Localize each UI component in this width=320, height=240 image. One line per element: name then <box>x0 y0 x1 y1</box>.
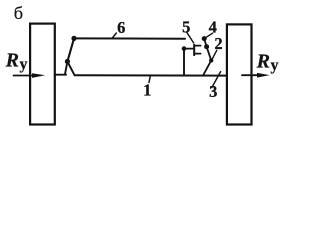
right force arrow head <box>257 73 270 78</box>
label 3 leader <box>212 72 221 88</box>
svg-text:б: б <box>14 3 23 23</box>
left force arrow Ry shaft <box>14 75 35 77</box>
bracket from left plate <box>55 74 66 76</box>
fulcrum left leg <box>65 62 68 75</box>
svg-text:R: R <box>5 50 19 72</box>
svg-text:6: 6 <box>117 18 125 37</box>
svg-text:1: 1 <box>143 80 151 99</box>
contact arm upper <box>207 47 212 61</box>
svg-text:R: R <box>256 51 270 73</box>
svg-text:у: у <box>20 56 28 73</box>
right force arrow shaft <box>242 74 259 76</box>
svg-text:у: у <box>271 57 279 74</box>
contact dot 2 <box>204 44 209 49</box>
label 5 leader <box>187 32 194 43</box>
upper bar 6 <box>75 37 185 39</box>
right support plate <box>227 24 252 124</box>
fulcrum right leg <box>67 62 74 76</box>
label 2 leader <box>211 50 216 60</box>
contact arm lower <box>203 60 211 75</box>
label 6 leader <box>112 33 116 38</box>
fork top prong <box>195 45 201 47</box>
label 4 leader <box>205 33 213 38</box>
svg-text:2: 2 <box>214 34 222 53</box>
svg-text:3: 3 <box>209 82 217 101</box>
contact pair segment <box>204 39 206 47</box>
fork bar 5 <box>193 45 195 55</box>
lever upper pivot dot <box>71 36 76 41</box>
left force arrow head <box>32 73 45 78</box>
contact dot 4 <box>202 36 207 41</box>
left support plate <box>30 24 55 125</box>
contact arm elbow <box>209 58 213 62</box>
svg-text:5: 5 <box>182 17 190 36</box>
lever lower pivot dot <box>65 59 70 64</box>
link to fork <box>184 48 194 50</box>
lever link <box>67 38 74 61</box>
contact post <box>183 50 185 76</box>
rod 1 <box>75 74 227 76</box>
label 1 leader <box>149 76 150 83</box>
post top dot <box>182 46 187 51</box>
fork bottom prong <box>195 53 201 55</box>
